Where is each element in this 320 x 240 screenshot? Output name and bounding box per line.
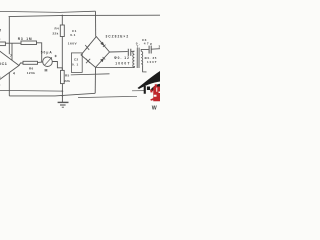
svg-text:Φ0. 35: Φ0. 35: [145, 56, 157, 60]
wire bridge top feed: [95, 11, 97, 36]
diode D2 mark: [100, 42, 104, 46]
logo red character notch 2: [154, 95, 157, 97]
svg-text:R3 1M: R3 1M: [18, 37, 33, 41]
svg-text:Φ0. 12: Φ0. 12: [114, 56, 130, 60]
op-amp U1 triangle: [0, 51, 19, 81]
svg-text:C3: C3: [142, 38, 147, 42]
diode D4 mark: [100, 58, 104, 62]
wire bridge bottom to transformer primary bottom: [96, 66, 135, 68]
svg-text:0. 1: 0. 1: [72, 62, 79, 66]
wire primary bottom stub: [133, 66, 135, 68]
transformer secondary winding: [141, 51, 143, 65]
capacitor C3 plates: [149, 46, 151, 54]
svg-text:120k: 120k: [27, 71, 36, 75]
logo red character top spike: [155, 84, 157, 87]
wire R3 right down to meter node: [37, 43, 42, 62]
meter needle: [45, 57, 52, 65]
wire C3 output to edge: [151, 48, 160, 51]
wire C2 node horizontal: [71, 74, 110, 75]
logo black outer swoosh: [138, 71, 161, 89]
resistor R6 120k body: [23, 61, 38, 64]
svg-text:R5: R5: [65, 73, 70, 77]
svg-text:7: 7: [10, 54, 12, 58]
resistor R1 clipped at left edge: [0, 42, 5, 46]
wire meter to R5 jog: [52, 62, 62, 71]
wire bottom bus: [9, 93, 95, 96]
svg-text:C1: C1: [72, 29, 77, 33]
resistor R3 body: [21, 41, 37, 45]
logo black inner arc: [150, 84, 160, 93]
wire R1 to R3: [5, 42, 21, 44]
wire C4 to transformer primary: [131, 50, 135, 52]
logo red character body: [153, 87, 160, 102]
svg-text:3: 3: [159, 44, 161, 48]
svg-text:3CZ82E×2: 3CZ82E×2: [106, 34, 130, 38]
svg-text:T: T: [137, 45, 139, 49]
C2 box: [71, 53, 82, 73]
wire secondary top to C3: [141, 49, 149, 51]
wire secondary bottom: [143, 65, 147, 72]
svg-text:M: M: [45, 68, 48, 72]
transformer core: [137, 48, 139, 68]
wire R6 to meter: [38, 61, 43, 63]
wire R4 top stub: [61, 15, 63, 25]
wire R4 bottom to R5: [61, 37, 63, 71]
junction dot R4 top: [62, 15, 64, 17]
logo red character notch 3: [159, 92, 161, 94]
svg-text:50μA: 50μA: [41, 50, 53, 54]
resistor R4 body: [60, 25, 64, 37]
meter plus mark: [55, 55, 57, 57]
svg-text:100T: 100T: [147, 60, 158, 64]
logo red character notch 1: [156, 88, 157, 92]
logo red dot: [150, 90, 152, 93]
svg-text:W: W: [152, 105, 157, 110]
logo red swoosh: [150, 97, 160, 101]
wire top rule: [0, 11, 96, 12]
junction dot ground rule: [62, 90, 64, 92]
resistor R5 body: [61, 70, 65, 83]
svg-text:±: ±: [0, 83, 1, 87]
junction dot bottom bus: [62, 95, 64, 97]
wire opamp out to R6: [19, 63, 23, 66]
wire op-amp pin7 supply: [8, 17, 10, 55]
wire op-amp pin4 down: [8, 72, 10, 96]
logo bottom right: [138, 71, 161, 111]
wire bottom rule mid right: [132, 90, 145, 92]
wire node down to op-amp input: [11, 43, 13, 60]
wire top bus full width: [9, 15, 160, 16]
svg-text:1000T: 1000T: [115, 61, 130, 65]
wire R5 to ground: [61, 84, 63, 103]
wire bridge right to C4 cap: [110, 51, 128, 53]
svg-text:k: k: [0, 37, 1, 41]
diode D3 mark: [86, 59, 90, 64]
svg-text:C2: C2: [74, 57, 79, 61]
wire bridge bottom return: [94, 67, 96, 93]
svg-text:4: 4: [13, 71, 15, 75]
logo black tick: [147, 87, 150, 91]
svg-text:R6: R6: [29, 67, 34, 71]
wire bottom rule left: [0, 89, 62, 92]
svg-text:R4: R4: [55, 27, 60, 31]
meter M circle: [43, 57, 53, 67]
svg-text:M: M: [0, 29, 1, 33]
text labels (4x coords): [0, 27, 161, 87]
transformer B primary winding: [133, 51, 135, 67]
ground symbol: [58, 101, 69, 103]
svg-text:160V: 160V: [68, 42, 78, 46]
svg-text:40: 40: [0, 75, 1, 79]
svg-text:22k: 22k: [53, 31, 59, 35]
capacitor C4 plates: [128, 49, 131, 56]
svg-text:IC1: IC1: [0, 62, 7, 66]
diode D1 mark: [85, 45, 90, 50]
wire bottom rule right: [78, 96, 137, 97]
svg-text:22k: 22k: [64, 79, 70, 83]
logo black bar: [144, 86, 146, 94]
svg-text:0.1: 0.1: [70, 33, 75, 37]
bridge rectifier diamond: [81, 37, 110, 68]
